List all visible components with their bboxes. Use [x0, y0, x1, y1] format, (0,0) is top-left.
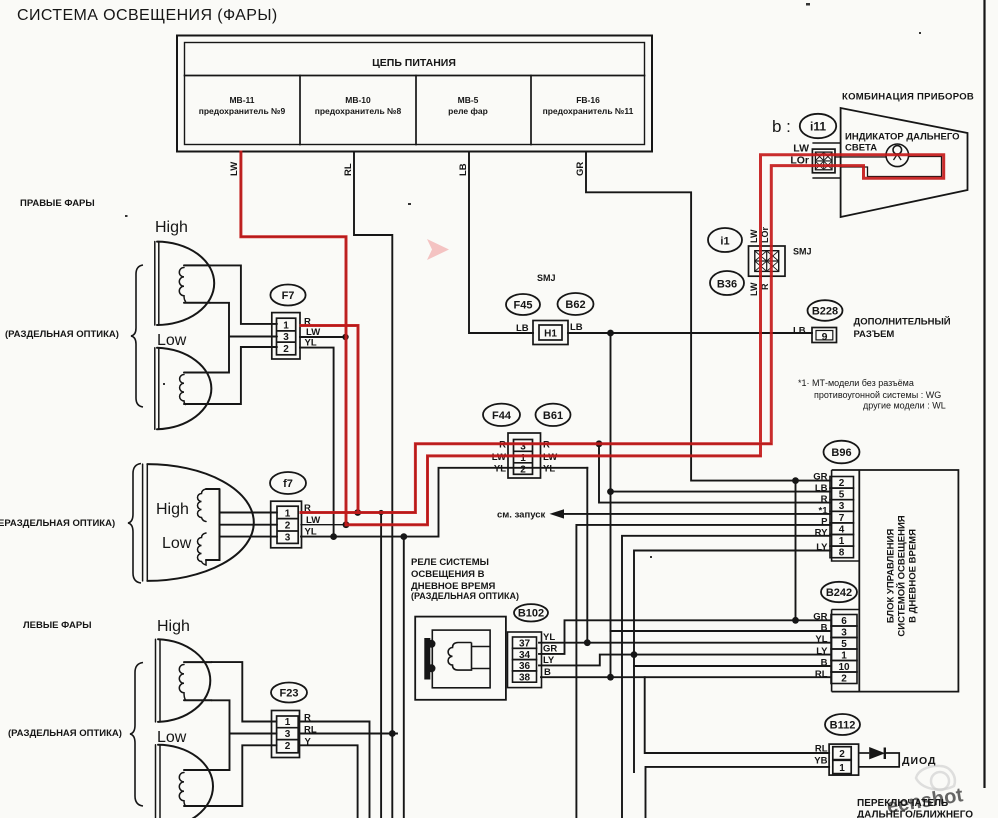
- svg-text:LW: LW: [229, 162, 240, 176]
- wire GR from fuse FB-16 to B96 pin2: [586, 152, 830, 481]
- connector i11: [812, 143, 941, 178]
- svg-text:5: 5: [839, 490, 845, 501]
- wire LB vertical H1 junction down through B96 pin5 to B102 B row: [610, 333, 612, 677]
- wire F23 RL row: [300, 733, 398, 735]
- wire R red stub at F7 upper: [301, 326, 358, 513]
- headlamp right-High bulb: [184, 265, 210, 302]
- headlamp combined bulb body: [206, 489, 220, 560]
- wire LB from fuse MB-5 to H1: [469, 152, 533, 333]
- power supply box outer border: [177, 36, 652, 152]
- svg-text:Low: Low: [157, 332, 187, 349]
- svg-text:LB: LB: [458, 163, 469, 176]
- headlamp right-Low bulb: [184, 373, 210, 405]
- svg-text:LW: LW: [793, 143, 809, 155]
- svg-text:H1: H1: [544, 329, 557, 340]
- wire LY relay B102 pin36 to B242 pin1: [539, 655, 831, 666]
- svg-text:1: 1: [839, 536, 845, 547]
- svg-text:YL: YL: [543, 632, 555, 643]
- svg-text:36: 36: [519, 661, 531, 672]
- svg-text:B228: B228: [812, 306, 838, 318]
- wire right-High/Low common to F7 pin3: [210, 303, 277, 373]
- svg-text:2: 2: [285, 741, 291, 752]
- wire right-Low bulb to F7 pin2: [210, 347, 277, 404]
- svg-text:GR: GR: [575, 162, 586, 176]
- svg-text:MB-10: MB-10: [345, 95, 371, 105]
- connector ellipse B36: [710, 271, 744, 295]
- svg-text:MB-11: MB-11: [229, 95, 254, 105]
- wire LW black under red to bulb: [835, 156, 886, 158]
- connector ellipse f7 lower: [270, 472, 306, 494]
- svg-text:B36: B36: [717, 279, 737, 291]
- svg-text:предохранитель №9: предохранитель №9: [199, 106, 286, 116]
- wire R vertical to left headlights: [380, 513, 382, 818]
- connector F44/B61 inline: [508, 433, 541, 478]
- svg-text:B96: B96: [831, 447, 851, 459]
- wire B242 pin10 B branch: [634, 665, 831, 667]
- wire P from B96 pin4: [576, 525, 830, 818]
- svg-text:7: 7: [839, 513, 845, 524]
- headlamp right-High housing arc: [157, 242, 214, 325]
- wire left-Low bulb to F23 pin2: [212, 745, 277, 806]
- svg-text:YB: YB: [814, 756, 827, 767]
- svg-text:другие модели : WL: другие модели : WL: [863, 401, 946, 411]
- connector F7 upper (right headlights): [272, 313, 300, 359]
- svg-text:B: B: [544, 667, 551, 678]
- wire RL branch down to B112 pin2: [645, 677, 829, 753]
- svg-text:B: B: [821, 658, 828, 669]
- svg-text:B102: B102: [518, 608, 544, 620]
- svg-text:2: 2: [285, 521, 291, 532]
- headlamp left-High filament coil: [179, 665, 185, 700]
- svg-text:P: P: [821, 516, 828, 527]
- svg-text:2: 2: [520, 465, 526, 476]
- svg-text:RY: RY: [815, 527, 829, 538]
- wire LB branch to B96 pin5: [611, 491, 831, 493]
- svg-text:ЦЕПЬ ПИТАНИЯ: ЦЕПЬ ПИТАНИЯ: [372, 57, 456, 69]
- svg-text:YL: YL: [543, 463, 555, 474]
- wire RY from B96 pin1: [622, 536, 830, 818]
- svg-text:1: 1: [841, 651, 847, 662]
- svg-text:YL: YL: [494, 463, 506, 474]
- svg-text:B62: B62: [565, 299, 585, 311]
- node GR at B242 pin6 row: [792, 617, 799, 624]
- svg-text:34: 34: [519, 650, 531, 661]
- svg-text:противоугонной системы : WG: противоугонной системы : WG: [814, 390, 941, 400]
- headlamp left-Low bulb: [184, 770, 212, 806]
- svg-text:YL: YL: [305, 338, 317, 349]
- svg-text:B: B: [821, 623, 828, 634]
- wire B relay B102 pin38 to B242 pin2 row: [541, 676, 831, 678]
- svg-text:Y: Y: [305, 737, 312, 748]
- watermark pink arrow: [427, 239, 449, 260]
- svg-text:F44: F44: [492, 410, 512, 422]
- instrument cluster trapezoid: [841, 108, 968, 217]
- wire LB from H1 to B228: [568, 332, 812, 334]
- connector ellipse B102: [514, 604, 548, 621]
- relay B102 coil: [448, 643, 490, 671]
- svg-text:F45: F45: [514, 300, 533, 312]
- brace combined optics: [128, 464, 141, 584]
- svg-text:F23: F23: [280, 688, 299, 700]
- svg-text:9: 9: [822, 331, 828, 343]
- headlamp left-High housing arc: [158, 639, 210, 722]
- svg-text:GR: GR: [813, 472, 827, 483]
- wire LW stub F7 upper pin3: [300, 336, 344, 338]
- diode symbol: [859, 748, 900, 767]
- wire YL headlight net horizontal: [301, 468, 587, 537]
- brace right headlights: [131, 265, 143, 407]
- svg-text:(РАЗДЕЛЬНАЯ ОПТИКА): (РАЗДЕЛЬНАЯ ОПТИКА): [5, 329, 119, 340]
- svg-text:ОСВЕЩЕНИЯ В: ОСВЕЩЕНИЯ В: [411, 569, 485, 580]
- svg-text:1: 1: [283, 321, 289, 332]
- svg-text:GR: GR: [543, 644, 557, 655]
- svg-text:High: High: [156, 501, 189, 518]
- svg-text:High: High: [157, 618, 190, 635]
- wire LY from B96 pin8: [634, 551, 830, 773]
- relay B102 inner box: [432, 630, 490, 688]
- connector ellipse F7 upper: [270, 285, 305, 306]
- svg-text:(НЕРАЗДЕЛЬНАЯ ОПТИКА): (НЕРАЗДЕЛЬНАЯ ОПТИКА): [0, 518, 115, 529]
- high-beam indicator bulb: [886, 144, 909, 167]
- wire R stub F7 upper pin1 (under red): [301, 326, 358, 513]
- wire YL relay B102 pin37 to B242 pin5: [539, 642, 831, 644]
- svg-text:3: 3: [285, 533, 291, 544]
- node B at relay pin38 row: [607, 674, 614, 681]
- headlamp right-High housing flat edge: [155, 242, 159, 326]
- node RL at F23 pin3 row: [389, 730, 396, 737]
- node YL at combined lamp row x334: [330, 533, 337, 540]
- wire YL branch down x=404: [403, 537, 405, 818]
- svg-text:(РАЗДЕЛЬНАЯ ОПТИКА): (РАЗДЕЛЬНАЯ ОПТИКА): [411, 591, 519, 601]
- wire YB to B112 pin1: [646, 767, 830, 818]
- svg-text:3: 3: [283, 332, 289, 343]
- svg-text:38: 38: [519, 672, 531, 683]
- svg-text:СИСТЕМОЙ ОСВЕЩЕНИЯ: СИСТЕМОЙ ОСВЕЩЕНИЯ: [896, 515, 908, 636]
- svg-text:SMJ: SMJ: [537, 273, 556, 283]
- wire RL from fuse MB-10: [354, 152, 392, 818]
- svg-text:ПРАВЫЕ ФАРЫ: ПРАВЫЕ ФАРЫ: [20, 198, 95, 209]
- svg-text:B242: B242: [826, 587, 852, 599]
- wire *1 to B96 pin7 (see startup arrow line): [563, 513, 830, 515]
- wire LW red from fuse MB-11: [241, 152, 346, 525]
- svg-text:1: 1: [285, 717, 291, 728]
- svg-text:YL: YL: [815, 634, 827, 645]
- svg-text:YL: YL: [305, 527, 317, 538]
- svg-text:LB: LB: [815, 483, 828, 494]
- relay B102 outer box: [415, 617, 506, 700]
- node R branch to left headlights: [379, 510, 384, 515]
- relay B102 coil leads: [472, 647, 491, 669]
- svg-text:2: 2: [839, 749, 845, 760]
- headlamp left-Low filament coil: [179, 773, 185, 806]
- wire left-High bulb to F23 pin1: [212, 662, 277, 721]
- svg-text:6: 6: [841, 616, 847, 627]
- svg-text:f7: f7: [283, 478, 293, 490]
- node LY at B242 pin1 row: [631, 651, 638, 658]
- svg-text:RL: RL: [304, 725, 317, 736]
- connector B228 pin9 box: [812, 328, 837, 343]
- svg-text:LY: LY: [816, 542, 828, 553]
- wire R branch to B96 pin3: [599, 444, 830, 503]
- wire GR branch B96 to B242 pin6: [795, 481, 797, 621]
- power supply box cell divider 2: [415, 76, 417, 145]
- wire combined LW row to f7 pin2: [220, 524, 278, 526]
- see startup arrowhead: [550, 509, 565, 518]
- connector ellipse F23: [271, 683, 307, 703]
- headlamp right-High filament coil: [179, 268, 185, 302]
- svg-text:БЛОК УПРАВЛЕНИЯ: БЛОК УПРАВЛЕНИЯ: [886, 529, 897, 623]
- connector B242 pin column: [831, 610, 859, 692]
- svg-text:реле фар: реле фар: [448, 106, 488, 116]
- svg-text:LW: LW: [749, 229, 759, 243]
- svg-text:Low: Low: [162, 535, 192, 552]
- wire LW row combined lamp (under red): [301, 456, 761, 525]
- svg-text:LB: LB: [570, 322, 583, 333]
- svg-text:LW: LW: [749, 282, 759, 296]
- connector ellipse i1: [708, 228, 742, 252]
- connector ellipse i11: [800, 114, 836, 138]
- connector f7 lower (combined lamp): [271, 501, 302, 548]
- power supply box header divider: [185, 75, 645, 77]
- svg-text:b :: b :: [772, 117, 791, 136]
- power supply box cell divider 1: [299, 76, 301, 145]
- svg-text:MB-5: MB-5: [458, 95, 479, 105]
- wire combined R row to f7 pin1: [220, 512, 278, 514]
- svg-text:2: 2: [283, 344, 289, 355]
- svg-text:B61: B61: [543, 410, 563, 422]
- wire YL from F44 down to relay row: [586, 468, 588, 643]
- red highlighted circuit trace: [241, 152, 944, 525]
- svg-text:СВЕТА: СВЕТА: [845, 143, 877, 154]
- svg-text:B112: B112: [830, 720, 856, 732]
- svg-text:*1: *1: [819, 505, 829, 516]
- node LB at H1: [607, 330, 614, 337]
- svg-text:ЛЕВЫЕ ФАРЫ: ЛЕВЫЕ ФАРЫ: [23, 620, 92, 631]
- watermark gray gear: [916, 766, 955, 790]
- svg-text:РЕЛЕ СИСТЕМЫ: РЕЛЕ СИСТЕМЫ: [411, 557, 489, 568]
- svg-text:RL: RL: [815, 744, 828, 755]
- svg-text:R: R: [821, 494, 828, 505]
- connector F23 (left headlights): [272, 711, 300, 758]
- connector ellipse B242: [821, 582, 857, 602]
- svg-text:(РАЗДЕЛЬНАЯ ОПТИКА): (РАЗДЕЛЬНАЯ ОПТИКА): [8, 728, 122, 739]
- headlamp left-High housing flat edge: [156, 639, 161, 722]
- svg-text:R: R: [304, 713, 311, 724]
- svg-text:см. запуск: см. запуск: [497, 510, 546, 521]
- svg-text:В ДНЕВНОЕ ВРЕМЯ: В ДНЕВНОЕ ВРЕМЯ: [908, 529, 919, 623]
- node LW at F7 upper pin3: [342, 334, 348, 340]
- wire combined YL row to f7 pin3: [220, 536, 278, 538]
- headlamp left-Low housing arc: [158, 745, 213, 818]
- svg-text:37: 37: [519, 639, 531, 650]
- svg-text:LY: LY: [543, 655, 555, 666]
- connector ellipse B62: [558, 293, 594, 315]
- svg-text:1: 1: [285, 509, 291, 520]
- svg-text:i1: i1: [720, 236, 729, 248]
- headlamp right-Low housing arc: [157, 348, 211, 430]
- headlamp combined housing arc: [147, 464, 254, 581]
- svg-text:КОМБИНАЦИЯ ПРИБОРОВ: КОМБИНАЦИЯ ПРИБОРОВ: [842, 92, 974, 103]
- svg-text:СИСТЕМА ОСВЕЩЕНИЯ (ФАРЫ): СИСТЕМА ОСВЕЩЕНИЯ (ФАРЫ): [17, 7, 278, 24]
- power supply box cell divider 3: [530, 76, 532, 145]
- svg-text:LB: LB: [793, 326, 806, 337]
- svg-text:предохранитель №8: предохранитель №8: [315, 106, 402, 116]
- svg-text:РАЗЪЕМ: РАЗЪЕМ: [854, 329, 895, 340]
- svg-text:GR: GR: [813, 612, 827, 623]
- svg-text:ДОПОЛНИТЕЛЬНЫЙ: ДОПОЛНИТЕЛЬНЫЙ: [854, 316, 951, 328]
- page fold line right edge: [983, 0, 985, 788]
- node YL at relay row: [584, 639, 591, 646]
- wire R row combined lamp (under red): [301, 444, 771, 513]
- svg-text:High: High: [155, 219, 188, 236]
- svg-text:8: 8: [839, 548, 845, 559]
- svg-text:3: 3: [841, 628, 847, 639]
- svg-text:*1· МТ-модели без разъёма: *1· МТ-модели без разъёма: [798, 378, 914, 388]
- svg-text:FB-16: FB-16: [576, 95, 600, 105]
- svg-text:LY: LY: [816, 646, 828, 657]
- junction dots: [330, 330, 799, 737]
- svg-text:ИНДИКАТОР ДАЛЬНЕГО: ИНДИКАТОР ДАЛЬНЕГО: [845, 132, 960, 143]
- node LW at combined lamp row: [343, 521, 350, 528]
- wire right-High bulb to F7 pin1: [210, 265, 277, 324]
- brace left headlights: [130, 663, 143, 807]
- relay B102 switch bar: [427, 638, 435, 680]
- svg-text:10: 10: [838, 662, 850, 673]
- svg-text:3: 3: [839, 501, 845, 512]
- wire LOr black return loop under red: [841, 157, 942, 177]
- node R to B96 pin3: [596, 440, 603, 447]
- headlamp left-High bulb: [184, 662, 212, 700]
- connector ellipse F44: [483, 404, 520, 426]
- headlamp right-Low housing flat edge: [155, 348, 159, 430]
- wire F23 R row: [300, 722, 370, 818]
- svg-text:4: 4: [839, 524, 845, 535]
- headlamp combined housing flat edge: [143, 464, 148, 581]
- headlamp left-Low housing flat edge: [156, 745, 161, 818]
- svg-text:предохранитель №11: предохранитель №11: [543, 106, 634, 116]
- wire B242 pin3 B branch: [611, 630, 832, 632]
- connector B102 pins: [508, 632, 542, 688]
- wire LW fuse stub (under red): [241, 152, 346, 525]
- headlamp combined High filament coil: [198, 489, 207, 522]
- node R at combined lamp row: [354, 509, 361, 516]
- svg-text:RL: RL: [343, 163, 354, 176]
- svg-text:ДИОД: ДИОД: [902, 755, 937, 767]
- svg-text:SMJ: SMJ: [793, 247, 812, 257]
- svg-text:LW: LW: [306, 515, 320, 526]
- connector SMJ i1/B36: [749, 246, 786, 276]
- connector B96 pin column: [830, 470, 859, 561]
- svg-text:i11: i11: [810, 120, 826, 134]
- svg-text:RL: RL: [815, 669, 828, 680]
- svg-text:LB: LB: [516, 323, 529, 334]
- scan specks: [125, 3, 921, 558]
- headlamp right-Low filament coil: [180, 375, 186, 405]
- power supply box inner border: [185, 43, 645, 145]
- wire red loop R/LW through SMJ and i11 indicator: [301, 155, 944, 525]
- connector i11 leads to cluster: [812, 143, 840, 178]
- connector ellipse B228: [808, 300, 843, 321]
- svg-text:2: 2: [839, 478, 845, 489]
- svg-text:F7: F7: [282, 290, 295, 302]
- headlamp combined Low filament coil: [198, 533, 207, 565]
- connector ellipse F45: [506, 294, 540, 315]
- svg-text:1: 1: [839, 763, 845, 774]
- connector ellipse B112: [825, 714, 860, 735]
- connector H1 (SMJ): [533, 321, 568, 345]
- wire left-High/Low common to F23 pin3: [212, 700, 277, 770]
- svg-text:2: 2: [841, 674, 847, 685]
- connector B112: [829, 744, 859, 775]
- node GR at B96 pin2 row: [792, 477, 799, 484]
- connector ellipse B96: [824, 441, 860, 464]
- wire F23 Y row: [300, 745, 358, 818]
- node YL at combined lamp row x404: [400, 533, 407, 540]
- label control unit rotated: [886, 515, 919, 636]
- svg-text:Low: Low: [157, 729, 187, 746]
- svg-text:5: 5: [841, 639, 847, 650]
- node LB to B96 pin5: [607, 488, 614, 495]
- svg-text:LW: LW: [306, 327, 320, 338]
- svg-text:3: 3: [285, 729, 291, 740]
- connector ellipse B61: [536, 404, 571, 426]
- wire GR relay B102 pin34 to B242 pin6: [539, 620, 831, 654]
- control unit box (daytime lighting control): [832, 470, 959, 692]
- wire YL vertical from F7 upper: [300, 348, 334, 537]
